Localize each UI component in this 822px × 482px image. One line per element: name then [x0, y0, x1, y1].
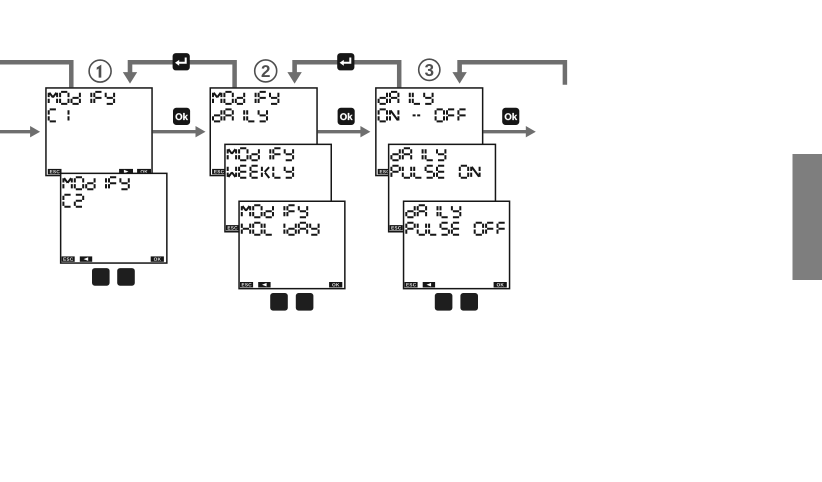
arrow: Ok advance from screen 3A to next page — [483, 126, 535, 137]
arrow: down into screen 2A top (return path) — [287, 60, 301, 84]
page tab (right margin marker) — [793, 154, 822, 280]
screen 3A (DAILY ON-OFF): LCD text row2 "ON = OFF" — [379, 109, 466, 121]
screen 3A (DAILY ON-OFF): softkey OK — [467, 169, 481, 174]
screen 3B (DAILY PULSE ON): LCD text row1 "dAILY" — [391, 148, 445, 160]
arrow: Ok advance from screen 2A to screen 3A — [318, 126, 371, 137]
button square S1a (+ key) — [92, 268, 110, 286]
screen 3C (DAILY PULSE OFF): softkey back (left arrow) — [423, 282, 435, 287]
key OK K2 — [338, 108, 355, 125]
screen B (MODIFY C2): softkey back (left arrow) — [80, 256, 92, 261]
screen A (MODIFY C1): frame — [46, 88, 152, 176]
screen B (MODIFY C2): LCD text row1 "MOdIFY" — [63, 177, 128, 189]
step number 3 — [419, 59, 440, 80]
screen 2A (MODIFY DAILY): LCD text row1 "MOdIFY" — [213, 92, 278, 104]
screen B (MODIFY C2): softkey OK — [151, 256, 164, 261]
arrow: down into screen A top (return path) — [123, 60, 137, 84]
screen 3B (DAILY PULSE ON): softkey OK — [479, 225, 492, 230]
screen B (MODIFY C2): softkey ESC — [62, 256, 75, 261]
screen 2A (MODIFY DAILY): softkey OK — [301, 169, 315, 174]
screen 3B (DAILY PULSE ON): softkey ESC — [390, 225, 403, 230]
screen B (MODIFY C2): frame — [61, 173, 167, 263]
key OK K3 — [502, 108, 519, 125]
screen 2C (MODIFY HOLIDAY): LCD text row2 "HOLIdAY" — [242, 223, 319, 235]
key ENTER K2 (return) — [337, 53, 354, 70]
arrow: down into screen 3A top (return path) — [452, 60, 466, 84]
wire: incoming return line (from previous page) into screen A top — [0, 62, 71, 87]
button square S2b (- key) — [296, 293, 314, 311]
screen A (MODIFY C1): softkey next (right arrow) — [119, 169, 133, 174]
arrow: Ok advance from screen A to screen 2A — [153, 126, 206, 137]
button square S2a (+ key) — [270, 293, 288, 311]
screen 3B (DAILY PULSE ON): LCD text row2 "PULSE ON" — [391, 166, 479, 178]
screen 3B (DAILY PULSE ON): frame — [389, 144, 496, 231]
screen 3C (DAILY PULSE OFF): frame — [404, 201, 510, 288]
screen 3A (DAILY ON-OFF): softkey ESC — [378, 169, 392, 174]
screen 2B (MODIFY WEEKLY): softkey OK — [315, 225, 328, 230]
arrow: Ok advance into screen A (from previous page) — [0, 126, 40, 137]
screen 3C (DAILY PULSE OFF): LCD text row1 "dAILY" — [406, 205, 460, 217]
screen 2B (MODIFY WEEKLY): LCD text row1 "MOdIFY" — [228, 148, 293, 160]
button square S3a (+ key) — [435, 293, 453, 311]
screen 3A (DAILY ON-OFF): softkey next (right arrow) — [449, 169, 463, 174]
screen 2A (MODIFY DAILY): softkey ESC — [212, 169, 226, 174]
screen B (MODIFY C2): LCD text row2 "C2" — [63, 195, 83, 207]
screen 2B (MODIFY WEEKLY): LCD text row2 "WEEKLY" — [228, 166, 293, 178]
screen 2C (MODIFY HOLIDAY): softkey ESC — [240, 282, 253, 287]
screen 2B (MODIFY WEEKLY): frame — [225, 144, 331, 231]
screen 2A (MODIFY DAILY): LCD text row2 "dAILY" — [213, 109, 267, 121]
step number 2 — [255, 60, 277, 82]
screen A (MODIFY C1): LCD text row2 "C1" — [49, 109, 69, 121]
screen A (MODIFY C1): softkey OK — [137, 169, 151, 174]
screen 2B (MODIFY WEEKLY): softkey ESC — [226, 225, 239, 230]
screen 3B (DAILY PULSE ON): softkey back (left arrow) — [408, 225, 420, 230]
screen A (MODIFY C1): LCD text row1 "MOdIFY" — [49, 92, 114, 104]
screen A (MODIFY C1): softkey ESC — [48, 169, 62, 174]
screen 2C (MODIFY HOLIDAY): frame — [239, 201, 345, 288]
button square S1b (- key) — [117, 268, 135, 286]
key OK K1 — [173, 108, 190, 125]
screen 3C (DAILY PULSE OFF): LCD text row2 "PULSE OFF" — [406, 223, 504, 235]
button square S3b (- key) — [460, 293, 478, 311]
screen 2B (MODIFY WEEKLY): softkey back (left arrow) — [244, 225, 256, 230]
screen 2A (MODIFY DAILY): frame — [210, 88, 317, 176]
key ENTER K1 (return) — [173, 53, 190, 70]
step number 1 — [89, 60, 111, 82]
screen 2C (MODIFY HOLIDAY): softkey OK — [329, 282, 342, 287]
screen 3C (DAILY PULSE OFF): softkey ESC — [405, 282, 418, 287]
wire: return line from screen 3A top to ENTER key K2 — [295, 62, 400, 87]
wire: return line from next page to screen 3A top — [460, 62, 565, 85]
screen 3A (DAILY ON-OFF): frame — [376, 88, 483, 176]
screen 2C (MODIFY HOLIDAY): softkey back (left arrow) — [258, 282, 270, 287]
wire: return line from screen 2A top to ENTER key K1 — [130, 62, 235, 87]
screen 2A (MODIFY DAILY): softkey next (right arrow) — [283, 169, 297, 174]
screen 3C (DAILY PULSE OFF): softkey OK — [494, 282, 507, 287]
screen 3A (DAILY ON-OFF): LCD text row1 "dAILY" — [379, 92, 433, 104]
screen 2C (MODIFY HOLIDAY): LCD text row1 "MOdIFY" — [242, 205, 307, 217]
